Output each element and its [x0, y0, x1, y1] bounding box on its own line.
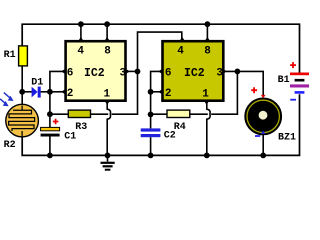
svg-text:6: 6 [67, 68, 74, 80]
node B (D1 / pin2 / pin6 tie) [47, 89, 53, 95]
node C1 at bottom rail [47, 153, 53, 159]
pin 1 label (IC2 left) [104, 89, 111, 101]
svg-text:R1: R1 [4, 50, 16, 61]
pin 6 label (IC2 right) [165, 68, 172, 80]
capacitor C1 [41, 114, 77, 155]
node D (pins 2-6 / C2 / R4 junction) [148, 112, 154, 118]
svg-text:C1: C1 [64, 132, 76, 143]
wire pin 1 of IC2 (right) down with hop [207, 102, 210, 155]
svg-text:8: 8 [104, 45, 111, 57]
wire pin 4 stub (IC2 left) [80, 24, 82, 40]
resistor R1 [4, 46, 28, 92]
node pin3 (IC2 right) [235, 69, 241, 75]
svg-text:R3: R3 [75, 122, 87, 133]
node A (R1 / D1 / R2 junction) [19, 89, 25, 95]
wire buzzer bottom lead [262, 135, 264, 156]
ground [101, 153, 115, 171]
svg-text:B1: B1 [278, 75, 290, 86]
wire pin 3 stub (IC2 left) [127, 70, 138, 72]
node pin8 at rail [104, 21, 110, 27]
pin 4 label (IC2 right) [177, 45, 184, 57]
wire pin 1 of IC2 (left) down with hop [107, 102, 110, 155]
svg-text:1: 1 [104, 89, 111, 101]
svg-text:IC2: IC2 [84, 67, 105, 80]
svg-text:D1: D1 [31, 77, 43, 88]
node pin2 (IC2 right) [148, 89, 154, 95]
node pin8 right at rail [205, 21, 211, 27]
wire pin 8 stub (IC2 right) [206, 24, 208, 40]
pin 2 label (IC2 right) [165, 88, 172, 100]
battery B1 [278, 62, 310, 100]
node buzzer at bottom rail [260, 153, 266, 159]
pin 4 label (IC2 left) [77, 45, 84, 57]
svg-text:1: 1 [202, 89, 209, 101]
pin 3 label (IC2 right) [216, 68, 223, 80]
pin 1 label (IC2 right) [202, 89, 209, 101]
wire D1 cathode lead [41, 91, 50, 93]
wire pins 2-6 tie of IC2 (right) [151, 71, 162, 114]
svg-text:R2: R2 [4, 140, 16, 151]
wire pin 3 stub (IC2 right) to buzzer [224, 71, 263, 96]
node pin4 at rail [78, 21, 84, 27]
node C2 at bottom rail [148, 153, 154, 159]
buzzer BZ1 [245, 87, 296, 143]
svg-text:4: 4 [177, 45, 184, 57]
pin 3 label (IC2 left) [120, 68, 127, 80]
diode D1 [31, 77, 43, 97]
resistor R3 [50, 110, 91, 133]
wire pin 8 stub (IC2 left) [106, 24, 108, 40]
pin 8 label (IC2 left) [104, 45, 111, 57]
light arrows into R2 [0, 93, 14, 107]
pin 6 label (IC2 left) [67, 68, 74, 80]
wire pin 2 stub of IC2 (left) [50, 91, 65, 93]
resistor R4 [151, 110, 190, 133]
node pin1 right at bottom rail [204, 153, 210, 159]
op-amp/timer IC2 (second, olive) [163, 41, 224, 100]
pin bumps IC2 (left) [61, 37, 130, 105]
pin 8 label (IC2 right) [204, 45, 211, 57]
pin bumps IC2 (right) [158, 37, 227, 105]
svg-text:8: 8 [204, 45, 211, 57]
node pin3 (IC2 left) [135, 69, 141, 75]
pin 2 label (IC2 left) [67, 88, 74, 100]
svg-text:R4: R4 [174, 122, 186, 133]
svg-text:3: 3 [216, 68, 223, 80]
node C (pin2 net / C1 / R3 junction) [47, 111, 53, 117]
wire R4 right to IC2 pin3 net [190, 71, 238, 114]
svg-text:2: 2 [67, 88, 74, 100]
wire top supply rail [22, 24, 299, 72]
wire D1 anode lead [22, 91, 32, 93]
wire bottom ground rail [22, 94, 299, 155]
svg-text:IC2: IC2 [184, 67, 205, 80]
wire pin 2 stub (IC2 right) [151, 91, 162, 93]
wire pins 2-6 tie of IC2 (left) [50, 71, 65, 114]
svg-text:4: 4 [77, 45, 84, 57]
capacitor C2 [141, 114, 176, 155]
LDR R2 [4, 92, 39, 151]
svg-text:BZ1: BZ1 [278, 132, 296, 143]
svg-text:2: 2 [165, 88, 172, 100]
svg-text:3: 3 [120, 68, 127, 80]
svg-text:6: 6 [165, 68, 172, 80]
wire R3 right to IC2 pin3 net [91, 32, 182, 114]
op-amp/timer IC2 (first, pale) [66, 41, 126, 100]
